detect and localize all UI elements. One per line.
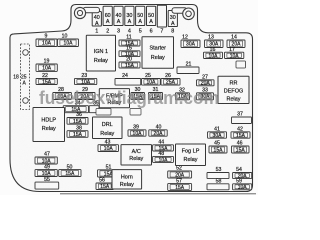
fuse 13 30A	[205, 35, 224, 48]
fuse 50 15A	[59, 164, 81, 177]
fuse 54 20A	[233, 167, 252, 179]
fuse 24 (empty)	[115, 73, 141, 85]
fuse 42 15A	[231, 127, 250, 139]
blank slot below F/PMP right	[130, 109, 141, 116]
maxi fuse 2 60A	[103, 6, 112, 34]
fuse 57 15A	[168, 178, 192, 191]
fuse 47 10A	[35, 152, 57, 165]
relay: DRL	[93, 117, 123, 139]
fuse 58 (empty)	[207, 179, 229, 190]
fuse 27 20A	[197, 75, 215, 87]
bolt tab top-left	[74, 7, 99, 18]
fuse 34 15A	[63, 100, 88, 113]
relay: F/PMP	[99, 89, 129, 108]
bolt tab top-right	[172, 8, 194, 20]
fuse 39 10A	[128, 125, 146, 137]
fuse 25 10A	[142, 73, 161, 86]
fuse 19 10A	[36, 59, 57, 72]
fuse 35 (empty)	[89, 100, 99, 112]
fuse 18 dashed holder	[13, 44, 29, 110]
fuse 55 (empty)	[35, 177, 59, 189]
fuse 37 (empty)	[232, 112, 252, 124]
fuse 28 10A	[53, 87, 72, 100]
fuse 38 15A	[67, 125, 88, 138]
fuse 22 15A	[36, 73, 57, 85]
fuse 46 15A	[232, 141, 250, 154]
fuse 26 25A	[161, 73, 180, 86]
fuse 45 15A	[209, 141, 227, 154]
relay: IGN 1	[86, 35, 115, 71]
maxi fuse 1 40A	[92, 12, 101, 35]
fuse 59 10A	[233, 179, 252, 191]
maxi fuse 4 30A	[125, 6, 134, 34]
fuse 44 15A	[153, 140, 174, 152]
relay: HDLP	[33, 108, 65, 142]
relay: Fog LP	[176, 144, 206, 166]
baseline under enclosure	[60, 193, 256, 195]
fuse 20 15A	[119, 57, 140, 69]
maxi fuse 6 50A	[147, 6, 156, 34]
fuse 41 30A	[208, 127, 227, 139]
fuse 53 (empty)	[207, 167, 229, 178]
fuse 30 15A	[131, 87, 145, 100]
fuse 36 15A	[67, 112, 88, 125]
fuse 48 10A	[153, 151, 174, 163]
fuse 33 30A	[197, 88, 214, 101]
small blank box below fuse 17	[236, 61, 246, 68]
fuse 12 30A	[181, 35, 200, 48]
fuse 9 10A	[36, 34, 57, 47]
fuse 43 10A	[98, 139, 119, 152]
fuse 52 20A	[168, 166, 192, 179]
fuse 32 10A	[176, 88, 190, 101]
maxi fuse 5 50A	[136, 6, 145, 34]
fuse 23 10A	[75, 73, 97, 85]
fuse 14 20A	[227, 35, 245, 48]
maxi fuse 3 40A	[114, 6, 123, 34]
fuse 21 (empty)	[177, 62, 199, 74]
scan noise overlay	[0, 0, 1, 1]
fuse 11 15A	[119, 35, 140, 47]
fuse 51 15A	[98, 165, 120, 178]
maxi fuse 7	[157, 5, 166, 34]
relay: Starter	[142, 37, 174, 69]
fuse 16 10A	[204, 47, 223, 59]
fuse 49 10A	[35, 164, 57, 177]
enclosure outline	[10, 5, 253, 192]
fuse 31 15A	[149, 87, 163, 100]
relay: Horn	[112, 170, 142, 189]
fuse 56 15A	[96, 178, 114, 190]
relay: RR DEFOG	[218, 76, 249, 103]
fuse 29 20A	[75, 87, 95, 100]
fuse 40 20A	[149, 125, 167, 137]
fuse 15 10A	[119, 46, 140, 58]
fuse 10 10A	[58, 34, 79, 47]
maxi fuse 8 30A	[168, 11, 177, 35]
blank slot below F/PMP left	[96, 109, 111, 116]
fuse 17 10A	[225, 47, 244, 59]
relay: A/C	[121, 145, 152, 165]
